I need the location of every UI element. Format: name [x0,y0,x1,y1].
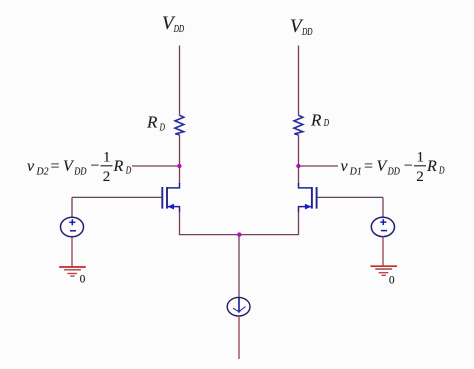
junction dot center [237,232,241,236]
wire node vD1 horizontal [299,165,339,167]
wire VDD right vertical [298,46,300,116]
svg-text:v: v [341,158,349,175]
svg-text:D2: D2 [36,167,49,178]
wire vsource left to ground [71,237,73,267]
wire vsource right to ground [382,236,384,265]
svg-text:R: R [113,158,124,175]
vsource right [371,197,394,236]
label VDD left [162,13,184,35]
resistor RD right [294,115,303,135]
svg-text:−: − [404,158,413,175]
junction dot left [177,164,181,168]
wire source left down [179,211,181,235]
svg-text:DD: DD [387,167,401,178]
svg-text:DD: DD [73,167,87,178]
resistor RD left [175,115,184,135]
svg-text:R: R [426,158,437,175]
svg-text:D: D [323,118,330,129]
svg-text:D: D [159,122,166,133]
label RD right [310,111,330,130]
transistor M1 (right) [299,183,317,213]
svg-text:R: R [146,113,158,132]
svg-text:0: 0 [80,274,86,286]
svg-text:DD: DD [173,23,184,35]
svg-text:D1: D1 [349,167,362,178]
svg-text:DD: DD [301,26,312,38]
svg-text:1: 1 [417,150,425,166]
wire resistor right to node [298,135,300,166]
svg-text:=: = [51,158,60,175]
wire VDD left vertical [179,46,181,116]
ground left [59,267,86,276]
wire source right down [298,211,300,235]
svg-text:2: 2 [103,169,111,185]
svg-text:v: v [27,158,35,175]
junction dot right [296,164,300,168]
svg-text:−: − [90,158,99,175]
label VDD right [290,16,313,38]
wire node to drain left [179,166,181,184]
svg-text:R: R [310,111,322,130]
wire current source bottom [238,316,240,359]
wire resistor left to node [179,135,181,166]
wire gate right [318,196,383,198]
vsource left [61,197,84,237]
ground right [370,266,397,275]
node label vD1 equation [341,150,446,185]
svg-text:0: 0 [389,275,395,287]
svg-text:2: 2 [416,169,424,185]
svg-text:V: V [63,158,75,175]
current source I [227,297,250,316]
wire bottom rail [179,234,299,236]
wire gate left [72,196,161,198]
wire node vD2 horizontal [132,165,180,167]
svg-text:=: = [364,158,373,175]
label RD left [146,113,165,134]
wire center down to current source [238,235,240,298]
transistor M2 (left) [162,183,179,213]
wire node to drain right [298,166,300,184]
svg-text:1: 1 [103,150,111,166]
svg-text:D: D [438,165,445,176]
node label vD2 equation [27,150,132,185]
svg-text:D: D [125,165,132,176]
